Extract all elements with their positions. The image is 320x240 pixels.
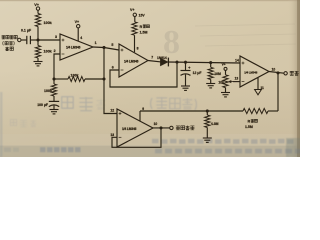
svg-text:12: 12	[110, 108, 114, 112]
svg-text:100k: 100k	[44, 21, 53, 25]
svg-text:5: 5	[111, 43, 113, 47]
wire node H branch to RSET2	[268, 110, 278, 112]
op-amp U1B 1/4 LM346	[119, 44, 148, 77]
svg-text:1: 1	[95, 41, 97, 45]
wire node B down to node C	[103, 48, 105, 80]
svg-text:1/4 LM346: 1/4 LM346	[124, 60, 139, 64]
svg-text:100 μF: 100 μF	[37, 103, 48, 107]
wire T2 to U1A pin 4	[78, 28, 82, 41]
V+ terminal T2 (pin 4)	[75, 20, 80, 28]
svg-text:8: 8	[137, 46, 139, 50]
op-amp U1A 1/4 LM346	[60, 34, 93, 60]
input terminal	[18, 38, 21, 41]
wire D1 cathode to U1D +input pin 14	[168, 62, 240, 63]
svg-text:10: 10	[154, 122, 158, 126]
svg-text:10: 10	[272, 68, 276, 72]
wire U1D V- pin 11 to ground	[258, 78, 264, 91]
wire C3 to ground	[185, 74, 187, 86]
ground G7	[203, 138, 212, 142]
svg-text:14: 14	[235, 59, 239, 63]
node E junction (rectifier feedback tap)	[176, 61, 179, 64]
svg-text:10M: 10M	[214, 72, 221, 76]
wire RSET1 to U1B set pin 8	[135, 35, 139, 52]
node F junction	[184, 61, 187, 64]
svg-text:10k: 10k	[218, 80, 224, 84]
wire node B to U1B +input, pin 5	[104, 43, 119, 50]
V+ terminal T4	[222, 63, 227, 71]
wire node A to R2	[37, 40, 39, 46]
wire U1A -input pin 2 to node D	[54, 49, 60, 79]
wire node D to R4	[53, 79, 55, 84]
potentiometer RV1 10k	[218, 75, 233, 88]
V+ terminal T3, 15V	[130, 8, 145, 18]
op-amp U1D 1/4 LM346	[235, 56, 269, 87]
wire RV1 wiper to U1D -input pin 13	[233, 77, 240, 82]
node I junction	[206, 110, 209, 113]
svg-text:1/4 LM346: 1/4 LM346	[122, 127, 137, 131]
wire set pin 9 of U1C	[140, 107, 144, 121]
svg-text:100k: 100k	[71, 74, 79, 78]
wire node I to R6	[206, 111, 208, 115]
wire input terminal to C1	[21, 39, 27, 41]
op-amp U1C 1/4 LM346	[110, 108, 153, 147]
svg-text:1.5M: 1.5M	[140, 31, 148, 35]
resistor RSET2 1.5M (R set)	[243, 108, 268, 129]
wire RV1 to ground	[225, 88, 227, 93]
svg-text:V+: V+	[222, 63, 226, 67]
wire node F to C3	[185, 62, 187, 70]
svg-text:1/4 LM346: 1/4 LM346	[244, 70, 257, 74]
node J junction	[160, 126, 163, 129]
ground G3	[181, 86, 190, 90]
wire R3 to node B branch	[85, 78, 104, 80]
wire T1 to R1	[37, 10, 39, 13]
wire node C down to U1C +input, pin 12	[104, 79, 117, 114]
resistor R4 100k	[44, 84, 57, 96]
resistor R6 4.3M	[205, 115, 219, 128]
resistor R5 10M	[208, 67, 221, 79]
wire node D to R3	[54, 78, 68, 80]
svg-text:6: 6	[112, 66, 114, 70]
svg-text:13: 13	[110, 133, 114, 137]
wire node H down to bottom feedback net	[277, 73, 279, 111]
resistor R3 100k (feedback)	[68, 74, 85, 82]
svg-text:V+: V+	[130, 8, 135, 12]
diode D1 1N914	[157, 56, 168, 67]
wire R6 to ground	[206, 128, 208, 139]
svg-text:4.3M: 4.3M	[211, 122, 219, 126]
svg-text:15V: 15V	[139, 13, 146, 17]
wire U1C -input pin 13 feedback	[112, 128, 161, 147]
svg-text:7: 7	[151, 56, 153, 60]
ground G4	[206, 84, 215, 88]
svg-text:13: 13	[235, 77, 239, 81]
svg-text:9: 9	[142, 107, 144, 111]
node A junction	[37, 39, 40, 42]
svg-text:4: 4	[80, 36, 82, 40]
node B junction	[103, 46, 106, 49]
wire R2 to ground	[37, 58, 39, 62]
output terminal (output)	[284, 71, 299, 75]
node C junction	[103, 78, 106, 81]
capacitor C2 100uF (polarized)	[37, 101, 59, 107]
svg-text:100k: 100k	[44, 89, 52, 93]
capacitor C3 12uF (polarized)	[181, 67, 202, 76]
svg-text:100k: 100k	[44, 50, 53, 54]
wire RSET2 to U1C set pin 9	[140, 110, 243, 112]
wire U1C output pin 10 to audio output terminal	[153, 122, 170, 128]
resistor RSET1 1.5M (R set)	[132, 22, 150, 35]
svg-text:2: 2	[54, 49, 56, 53]
svg-text:V+: V+	[75, 20, 80, 24]
ground G5	[221, 93, 230, 97]
ground G2	[50, 110, 59, 114]
wire U1A output pin 1 to node B	[93, 41, 104, 47]
input label (from line/microphone input)	[2, 35, 18, 50]
wire node G to R5	[210, 63, 212, 68]
node H junction	[277, 71, 280, 74]
wire T3 to RSET1	[134, 17, 136, 22]
wire T4 to RV1	[225, 70, 227, 74]
resistor R2 100k	[35, 46, 52, 59]
ground G6 (triangle)	[255, 90, 262, 95]
wire C2 to ground	[53, 106, 55, 110]
wire R1 to node A	[37, 27, 39, 41]
V+ terminal T1	[34, 3, 40, 10]
svg-text:1/4 LM346: 1/4 LM346	[66, 45, 81, 49]
svg-text:1N914: 1N914	[157, 56, 167, 60]
wire node A to U1A +input, pin 3	[38, 35, 60, 40]
wire U1D output pin 10 to output terminal	[269, 68, 284, 74]
wire R4 to C2	[53, 96, 55, 101]
wire R5 to ground	[210, 80, 212, 84]
audio output terminal	[170, 126, 195, 130]
svg-text:12 μF: 12 μF	[193, 71, 202, 75]
svg-text:3: 3	[55, 35, 57, 39]
wire U1B output pin 7 to D1	[148, 56, 161, 62]
capacitor C1 0.1uF	[21, 28, 32, 44]
ground G1	[34, 62, 43, 66]
svg-text:0.1 μF: 0.1 μF	[21, 28, 32, 32]
svg-text:1.5M: 1.5M	[245, 125, 253, 129]
node G junction	[209, 61, 212, 64]
wire C1 to node A	[30, 39, 38, 41]
resistor R1 100k	[35, 14, 52, 27]
wire U1B -input pin 6 feedback loop	[110, 62, 177, 87]
node D junction	[53, 78, 56, 81]
